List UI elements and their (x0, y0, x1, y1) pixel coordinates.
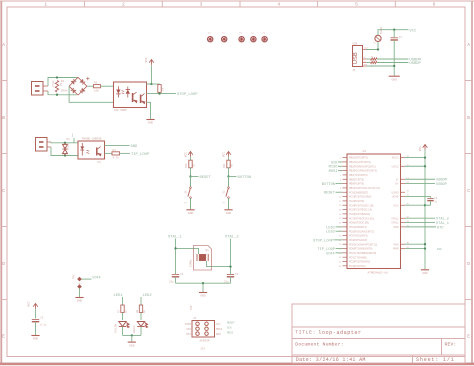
junction mcu pwr to trunk (424, 247, 426, 249)
svg-text:10: 10 (339, 197, 342, 199)
mounting holes H1-H5 (208, 37, 268, 42)
junction output node row1 (158, 92, 160, 94)
svg-text:R8: R8 (136, 309, 139, 313)
net label TIP_LOOP mcu (317, 248, 335, 252)
wire bridge + output (87, 85, 94, 87)
label S2 name (223, 190, 226, 194)
svg-text:D+: D+ (395, 183, 399, 186)
svg-text:TP1: TP1 (73, 274, 76, 279)
label usb pin VBUS (364, 47, 370, 50)
junction mcu AVCC to trunk (424, 156, 426, 158)
svg-text:11: 11 (339, 201, 342, 203)
svg-text:GND: GND (77, 300, 83, 303)
net label MISO mcu (329, 166, 339, 170)
svg-text:PC5(PCINT9/OC.1A): PC5(PCINT9/OC.1A) (349, 209, 372, 212)
svg-text:RESET: RESET (324, 192, 336, 196)
svg-text:PB1(SCLK/PCINT1): PB1(SCLK/PCINT1) (349, 161, 371, 164)
svg-text:USB: USB (353, 42, 358, 45)
label R6 name (230, 163, 233, 167)
svg-text:R2: R2 (94, 82, 98, 85)
net label MOSI mcu (329, 170, 338, 174)
label VCC text row1 (145, 57, 148, 62)
ground row1 (146, 120, 154, 125)
connector J1 (AC input jack) (32, 82, 49, 96)
svg-text:F1: F1 (373, 42, 376, 45)
wire cap C1 down / gnd trunk (393, 40, 395, 76)
junction xtal2 (229, 265, 231, 267)
svg-text:1: 1 (44, 1, 47, 7)
label R6 value (223, 163, 226, 168)
wire LED2 column top (140, 297, 142, 306)
wire mcu LED1 (336, 226, 343, 228)
wire mcu pin16 stub (405, 226, 436, 228)
MCU left pin numbers (339, 158, 342, 268)
svg-text:Date: 3/24/16 1:41 AM: Date: 3/24/16 1:41 AM (296, 357, 366, 363)
net label GND row2 (131, 145, 139, 149)
label hole H3 (239, 32, 242, 35)
optocoupler U2 (AC sense) (114, 82, 147, 108)
wire VBUS (367, 42, 379, 50)
wire button label stub (229, 176, 237, 178)
wire xtal gnd rail (176, 282, 231, 284)
wire R7 to LED1 (122, 313, 124, 321)
resistor R4 (112, 152, 120, 155)
label D1 name (67, 138, 71, 141)
svg-text:4: 4 (277, 1, 280, 7)
label ISP name (193, 317, 197, 320)
wire mcu AVCC to trunk (405, 157, 425, 159)
label C1 name (399, 36, 403, 39)
svg-text:C3: C3 (180, 273, 184, 276)
svg-text:1k: 1k (161, 87, 165, 91)
label C3 value (169, 281, 174, 284)
svg-text:RESET: RESET (200, 176, 212, 180)
resistor R8 (139, 305, 142, 312)
svg-text:GND: GND (422, 272, 428, 275)
wire USB D+ net (367, 62, 371, 64)
wire mcu BUTTON (336, 183, 343, 185)
MCU right pin stubs (401, 158, 406, 249)
svg-text:6: 6 (433, 1, 436, 7)
svg-text:PB6(PCINT6): PB6(PCINT6) (349, 183, 364, 186)
resistor R10 (371, 61, 378, 63)
label TP2 small (78, 282, 83, 285)
supply VCC c5 (33, 304, 38, 309)
label C5 name (40, 317, 44, 320)
wire VCC to C5 (35, 309, 37, 318)
svg-text:MISO: MISO (185, 323, 192, 326)
label U3 name (98, 161, 102, 164)
svg-text:Q1: Q1 (206, 249, 210, 252)
svg-text:LED2: LED2 (326, 231, 335, 235)
svg-text:TIP: TIP (71, 132, 74, 137)
junction xtal1 (174, 247, 176, 249)
svg-text:TITLE:: TITLE: (295, 330, 316, 336)
svg-text:E: E (2, 333, 5, 339)
net label ATD mcu (437, 226, 443, 230)
label R5 value (185, 163, 188, 168)
svg-text:270k: 270k (51, 80, 55, 87)
label ISP footprint (201, 347, 206, 350)
svg-text:14: 14 (339, 214, 342, 216)
svg-text:MOSI: MOSI (216, 328, 223, 331)
label usb pin D+ (364, 60, 367, 63)
svg-text:C4: C4 (235, 273, 239, 276)
wire xtal2 column (230, 239, 232, 275)
net label USBDP (409, 62, 421, 66)
svg-text:PD3(TXD1/INT3): PD3(TXD1/INT3) (349, 235, 368, 238)
svg-text:TP2: TP2 (78, 282, 83, 285)
resistor R5 (189, 160, 192, 168)
svg-text:10k: 10k (223, 163, 226, 168)
net label USBDM mcu (436, 179, 447, 183)
wire opto output row1 (147, 93, 177, 95)
resistor R6 (227, 160, 230, 168)
junction mcu VCC pin to trunk (424, 204, 426, 206)
svg-text:1u: 1u (434, 201, 438, 204)
junction R1 bottom (56, 94, 58, 96)
svg-text:GND: GND (200, 295, 206, 298)
wire trunk to gnd (424, 265, 426, 269)
wire cap C1 top stem (393, 30, 395, 38)
label AVRISP below (200, 339, 210, 342)
net label LED2 mcu (326, 231, 335, 235)
svg-text:C2: C2 (434, 197, 438, 200)
MCU right pin numbers (407, 156, 410, 249)
wire F1 to VCC rail (378, 30, 408, 36)
svg-text:YELLOW: YELLOW (114, 323, 117, 333)
label U1 name (363, 150, 367, 153)
net label LED2 (143, 294, 153, 298)
net label USBDP mcu (436, 183, 447, 187)
svg-text:VCC: VCC (145, 57, 148, 62)
wire VCC to R5 (190, 157, 192, 160)
net label XTAL_1 (168, 236, 182, 240)
svg-text:C5: C5 (40, 317, 44, 320)
svg-text:GND: GND (216, 333, 221, 336)
label S2 lower (223, 202, 226, 204)
svg-text:VCC: VCC (184, 152, 187, 157)
MCU U1 pin names (349, 157, 399, 268)
svg-text:GND: GND (391, 78, 397, 81)
wire LED1 column top (122, 297, 124, 306)
svg-text:19: 19 (339, 236, 342, 238)
label C4 name (235, 273, 239, 276)
svg-text:PB5(PCINT5): PB5(PCINT5) (349, 178, 364, 181)
svg-text:VAC DROP: VAC DROP (114, 109, 127, 112)
svg-text:D1: D1 (67, 138, 71, 141)
label R8 value (143, 309, 146, 313)
wire C5 down (35, 322, 37, 335)
junction collector node (150, 83, 152, 85)
svg-text:15: 15 (339, 218, 342, 220)
USB connector X1 (353, 46, 363, 67)
wire mcu XTAL2 to label (405, 217, 435, 219)
label VCC text c5 (27, 301, 30, 306)
wire U3 emitter to R4 (105, 152, 113, 154)
svg-text:SCK: SCK (227, 326, 232, 329)
MCU left pin stubs (343, 158, 348, 266)
svg-text:H5: H5 (262, 32, 265, 35)
svg-text:VOFF: VOFF (326, 252, 335, 256)
bridge rectifier B1 (69, 77, 89, 95)
label FWD mcu (437, 248, 442, 251)
svg-text:25: 25 (339, 262, 342, 264)
svg-text:REV:: REV: (445, 342, 457, 348)
wire LED2 down (140, 327, 142, 336)
resistor R2 series (94, 85, 101, 88)
LED D3 (137, 322, 148, 328)
svg-text:16MHz: 16MHz (190, 259, 193, 267)
wire mcu RESET (336, 191, 343, 193)
svg-text:VCC: VCC (419, 146, 422, 151)
svg-text:VCC: VCC (216, 323, 221, 326)
junction button node (227, 175, 229, 177)
svg-text:8: 8 (340, 188, 342, 190)
net label RESET mcu (324, 192, 336, 196)
wire U3 collector to GND label (105, 145, 130, 147)
wire LED1 down (122, 327, 124, 336)
wire TP1 to label (82, 278, 92, 280)
svg-text:R7: R7 (117, 309, 120, 313)
label VCC text mcu (419, 146, 422, 151)
supply VCC reset (188, 152, 193, 157)
svg-text:C: C (467, 188, 470, 194)
wire J2 pin1 rail (51, 141, 78, 144)
svg-text:2X3: 2X3 (201, 347, 206, 350)
ground button (224, 210, 232, 215)
svg-text:PC6(PCINT8/AIN1): PC6(PCINT8/AIN1) (349, 213, 370, 216)
svg-text:PC4(PCINT10): PC4(PCINT10) (349, 265, 366, 268)
svg-text:21: 21 (339, 244, 342, 246)
svg-text:PC1(PCINT11/AIN2): PC1(PCINT11/AIN2) (349, 196, 371, 199)
ground tp2 (75, 298, 83, 303)
svg-text:3: 3 (200, 1, 203, 7)
net label VOFF (92, 277, 101, 281)
svg-text:STOP_LOOP: STOP_LOOP (313, 239, 334, 243)
svg-text:PB3(PDO/MISO/PCINT3): PB3(PDO/MISO/PCINT3) (349, 170, 377, 173)
svg-text:B: B (2, 115, 5, 121)
svg-text:PC7(INT4/ICP1/CLKO): PC7(INT4/ICP1/CLKO) (349, 217, 374, 220)
svg-text:3: 3 (185, 202, 188, 204)
svg-text:VCC: VCC (27, 301, 30, 306)
svg-text:2: 2 (122, 1, 125, 7)
wire C4 down (230, 277, 232, 283)
resistor R7 (121, 305, 124, 312)
net label SCK isp right (227, 326, 232, 329)
svg-text:12: 12 (339, 205, 342, 207)
label hole H2 (222, 32, 225, 35)
svg-text:PC3(PCINT9/AIN2): PC3(PCINT9/AIN2) (349, 261, 370, 264)
wire reset label stub (191, 176, 199, 178)
label C3 name (180, 273, 184, 276)
svg-text:S2: S2 (223, 190, 226, 194)
svg-text:PB7(PCINT7/OC.0C/OC.1C): PB7(PCINT7/OC.0C/OC.1C) (349, 187, 380, 190)
label U3 value (82, 137, 102, 140)
svg-text:J3: J3 (193, 317, 197, 320)
svg-text:USBDP: USBDP (436, 183, 447, 187)
svg-text:GND: GND (148, 122, 154, 125)
svg-text:1k: 1k (125, 309, 128, 313)
capacitor C2 (427, 198, 433, 200)
label hole H4 (251, 32, 254, 35)
svg-text:Sheet: 1/1: Sheet: 1/1 (416, 357, 455, 363)
wire mcu UVCC to trunk (405, 165, 425, 167)
label D2 value vertical (114, 323, 117, 333)
supply VCC mcu (423, 145, 428, 150)
svg-text:XTAL2: XTAL2 (391, 217, 399, 220)
svg-text:V250: V250 (67, 143, 70, 150)
wire mcu vcc trunk (424, 150, 426, 265)
svg-text:X1: X1 (353, 69, 357, 72)
label MISO isp (185, 323, 192, 326)
junction xtal gnd (202, 282, 204, 284)
label S1 name (185, 190, 188, 194)
junction mcu pad to trunk (424, 243, 426, 245)
svg-text:VCC: VCC (409, 29, 417, 33)
ground mcu (421, 270, 429, 275)
svg-text:5: 5 (340, 175, 342, 177)
wire mcu D- to label (405, 178, 435, 180)
svg-text:UCAP: UCAP (392, 196, 399, 199)
svg-text:PC0(DW/RESET): PC0(DW/RESET) (349, 191, 368, 194)
svg-text:H3: H3 (239, 32, 242, 35)
svg-text:GND: GND (131, 145, 139, 149)
wire mcu XTAL1 to label (405, 222, 435, 224)
supply VCC button (226, 152, 231, 157)
label usb pin GND (364, 63, 368, 66)
svg-text:PD2(RXD1/AIN1/INT2): PD2(RXD1/AIN1/INT2) (349, 230, 374, 233)
junction reset node (189, 175, 191, 177)
wire R9 to USBDM label (377, 58, 408, 60)
resistor R1 (55, 81, 58, 93)
label VCC text reset (184, 152, 187, 157)
svg-text:RST: RST (186, 333, 191, 336)
svg-text:FWD: FWD (437, 248, 442, 251)
svg-text:PD0(INT0/OC.0B): PD0(INT0/OC.0B) (349, 222, 369, 225)
wire mcu UCAP to C2 (405, 197, 431, 198)
svg-text:D: D (467, 261, 470, 267)
supply VCC row1 (149, 60, 154, 65)
svg-text:D-: D- (396, 178, 399, 181)
junction usb gnd (393, 65, 395, 67)
label TP1 vertical (73, 274, 76, 279)
label C2 name (434, 197, 438, 200)
svg-text:26: 26 (339, 266, 342, 268)
wire C3 down (175, 277, 177, 283)
svg-text:USBDP: USBDP (409, 62, 421, 66)
wire mcu pwr to trunk (405, 248, 425, 250)
wire J2 pin2 rail (51, 147, 78, 156)
wire xtal gnd stem (202, 283, 204, 292)
svg-text:3: 3 (223, 202, 226, 204)
svg-text:BUTTON: BUTTON (238, 176, 252, 180)
net label RESET (200, 176, 212, 180)
svg-text:UVCC: UVCC (392, 165, 399, 168)
svg-text:B1: B1 (61, 80, 65, 83)
label C2 value (434, 201, 438, 204)
wire opto emitter to gnd (147, 102, 151, 119)
net label VOFF mcu (326, 252, 335, 256)
resistor R3 pullup (158, 85, 161, 93)
label B1 name (61, 80, 65, 83)
svg-text:13: 13 (339, 210, 342, 212)
svg-text:USB: USB (353, 52, 359, 64)
svg-text:PD1(AIN0/INT1): PD1(AIN0/INT1) (349, 226, 367, 229)
ground reset (186, 210, 194, 215)
wire mcu MISO (338, 165, 343, 167)
svg-text:UGND: UGND (391, 191, 398, 194)
svg-text:160: 160 (94, 90, 99, 93)
ground usb (389, 76, 400, 81)
label R4 value (113, 156, 120, 160)
svg-text:LED1: LED1 (114, 294, 124, 298)
label R4 name (113, 149, 117, 152)
label RST isp (186, 333, 191, 336)
TVS suppressor D1 (63, 143, 68, 156)
junction TVS top (64, 142, 66, 144)
label F1 value vertical (380, 26, 383, 34)
svg-text:0.1u: 0.1u (40, 324, 47, 327)
net label TIP_LOOP row2 (131, 153, 150, 157)
label U2 value VAC DROP (114, 109, 127, 112)
svg-text:VCC: VCC (393, 204, 398, 207)
capacitor C1 (391, 38, 398, 40)
label SCK isp (186, 328, 191, 331)
svg-text:GND: GND (188, 212, 194, 215)
label C4 value (224, 281, 229, 284)
svg-text:S1: S1 (185, 190, 188, 194)
net label STOP_LOOP row1 (177, 93, 198, 97)
svg-text:MOSI: MOSI (227, 331, 234, 334)
wire bridge - output to opto U2 pin2 (69, 86, 113, 102)
svg-text:XTAL_2: XTAL_2 (225, 236, 239, 240)
net label SCK mcu (331, 161, 338, 165)
label X1 name (353, 42, 358, 45)
net label BUTTON (238, 176, 252, 180)
title block (292, 304, 465, 363)
label F1 pin (373, 42, 376, 45)
wire R2 to opto U2 pin1 (101, 85, 114, 87)
junction led gnd (131, 334, 133, 336)
wire mcu LED2 (336, 230, 343, 232)
label VCC isp (216, 323, 221, 326)
svg-text:22: 22 (371, 55, 374, 58)
junction TVS bottom (64, 154, 66, 156)
svg-text:LED2: LED2 (143, 294, 153, 298)
label U1 value (368, 272, 388, 275)
svg-text:GND: GND (33, 338, 39, 341)
svg-text:24: 24 (339, 257, 342, 259)
ground leds (128, 342, 136, 347)
test pad TP1 (77, 277, 82, 282)
svg-text:U1: U1 (363, 150, 367, 153)
junction R1 top (56, 76, 58, 78)
wire USB D- net (367, 58, 371, 60)
wire mcu TIP_LOOP (336, 248, 343, 250)
wire mcu STOP_LOOP (334, 239, 343, 241)
svg-text:22p: 22p (169, 281, 174, 284)
svg-text:PB0(SS/PCINT0): PB0(SS/PCINT0) (349, 157, 368, 160)
ground c5 (31, 336, 39, 341)
net label LED1 mcu (326, 226, 336, 230)
label R10 value (371, 65, 374, 68)
svg-text:PHONE CHERUB: PHONE CHERUB (82, 137, 102, 140)
wire mcu VCC pin to trunk (405, 204, 425, 206)
junction vbus (377, 48, 379, 50)
svg-text:E: E (467, 333, 470, 339)
wire mcu D+ to label (405, 183, 435, 185)
